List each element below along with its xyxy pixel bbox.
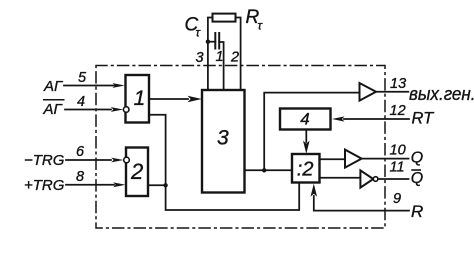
block :2 divider: [292, 154, 320, 183]
wire pin2 vertical with resistor right lead: [236, 18, 241, 91]
wire input -TRG pin6: [66, 159, 111, 161]
node junction Ct on pin3 wire: [206, 40, 210, 44]
svg-text:1: 1: [216, 49, 224, 65]
wire block4 down to :2: [305, 130, 307, 143]
node junction block2 output: [163, 183, 167, 187]
wire junction up and right to buffer 13: [264, 93, 359, 171]
node junction block3 output: [262, 168, 266, 172]
wire block3 output to :2: [245, 169, 293, 171]
block 1: [126, 75, 150, 123]
svg-text:2: 2: [130, 159, 143, 184]
svg-text:6: 6: [76, 144, 85, 160]
svg-text:9: 9: [393, 191, 401, 207]
arrow block4 into :2 top: [303, 141, 310, 154]
svg-text:Q: Q: [411, 150, 423, 167]
wire buffer13 output pin13: [376, 91, 408, 93]
svg-text:1: 1: [134, 87, 146, 110]
arrow block1 output into block3: [188, 96, 202, 103]
svg-text:вых.ген.: вых.ген.: [409, 84, 474, 104]
wire block1 output to block3: [149, 98, 188, 100]
wire pin1 from capacitor down to block 3: [219, 42, 223, 90]
wire RT pin12 into block4: [344, 118, 409, 120]
wire block2 output to junction: [148, 184, 166, 186]
bubble on block2 pin6 input: [124, 157, 130, 163]
block 3: [202, 90, 245, 193]
resistor Rt body: [213, 14, 236, 22]
wire R pin9 to :2 bottom: [314, 196, 409, 211]
svg-text:АГ: АГ: [43, 101, 64, 118]
wire input +TRG pin8: [66, 184, 114, 186]
arrow RT into block4: [332, 116, 345, 121]
overline for /AG: [43, 99, 65, 101]
svg-text:τ: τ: [258, 19, 264, 33]
overline for /Q: [411, 169, 421, 171]
IC boundary dash-dot: [96, 66, 385, 229]
svg-text:Q: Q: [411, 170, 423, 187]
svg-text:8: 8: [76, 169, 84, 185]
svg-text:4: 4: [300, 110, 309, 129]
block 4: [280, 109, 331, 130]
svg-text:−TRG: −TRG: [24, 152, 65, 169]
svg-text:2: 2: [230, 50, 239, 66]
svg-text:RT: RT: [412, 110, 436, 128]
arrow into block2 pin8: [113, 182, 125, 187]
svg-text:5: 5: [78, 70, 87, 86]
svg-text:R: R: [411, 202, 423, 221]
capacitor Ct lead left: [208, 41, 215, 43]
capacitor Ct plate right: [218, 33, 220, 49]
svg-text::2: :2: [297, 158, 314, 180]
svg-text:12: 12: [390, 103, 406, 119]
bubble on buffer11 output: [373, 177, 378, 182]
buffer U10 triangle: [345, 150, 362, 168]
wire pin3 vertical with resistor left lead: [208, 18, 213, 91]
svg-text:13: 13: [390, 76, 406, 92]
wire :2 top output to buffer10: [320, 158, 346, 160]
svg-text:4: 4: [77, 94, 85, 110]
buffer U13 triangle: [360, 83, 377, 101]
wire block1 lower output down to junction and bottom run to :2: [149, 115, 299, 210]
wire buffer10 output pin10: [362, 158, 409, 160]
svg-text:3: 3: [196, 50, 204, 66]
svg-text:τ: τ: [196, 26, 202, 40]
wire input AG pin5: [64, 85, 114, 87]
capacitor Ct plate left: [214, 33, 216, 49]
bubble on block1 pin4 input: [123, 107, 129, 113]
block 2: [126, 148, 148, 197]
arrow into block1 pin4 bubble: [111, 107, 123, 112]
wire :2 bottom output to buffer11: [320, 177, 361, 179]
arrow R into :2 bottom: [311, 184, 318, 197]
svg-text:АГ: АГ: [43, 78, 64, 95]
wire buffer11 output pin11: [378, 178, 409, 180]
wire input /AG pin4: [65, 109, 111, 111]
arrow into block1 pin5: [113, 83, 125, 88]
svg-text:3: 3: [217, 127, 229, 150]
arrow into block2 pin6 bubble: [111, 158, 123, 163]
svg-text:11: 11: [390, 160, 405, 176]
svg-text:10: 10: [390, 143, 406, 159]
svg-text:+TRG: +TRG: [24, 177, 65, 194]
buffer U11 inverter triangle: [360, 170, 373, 187]
